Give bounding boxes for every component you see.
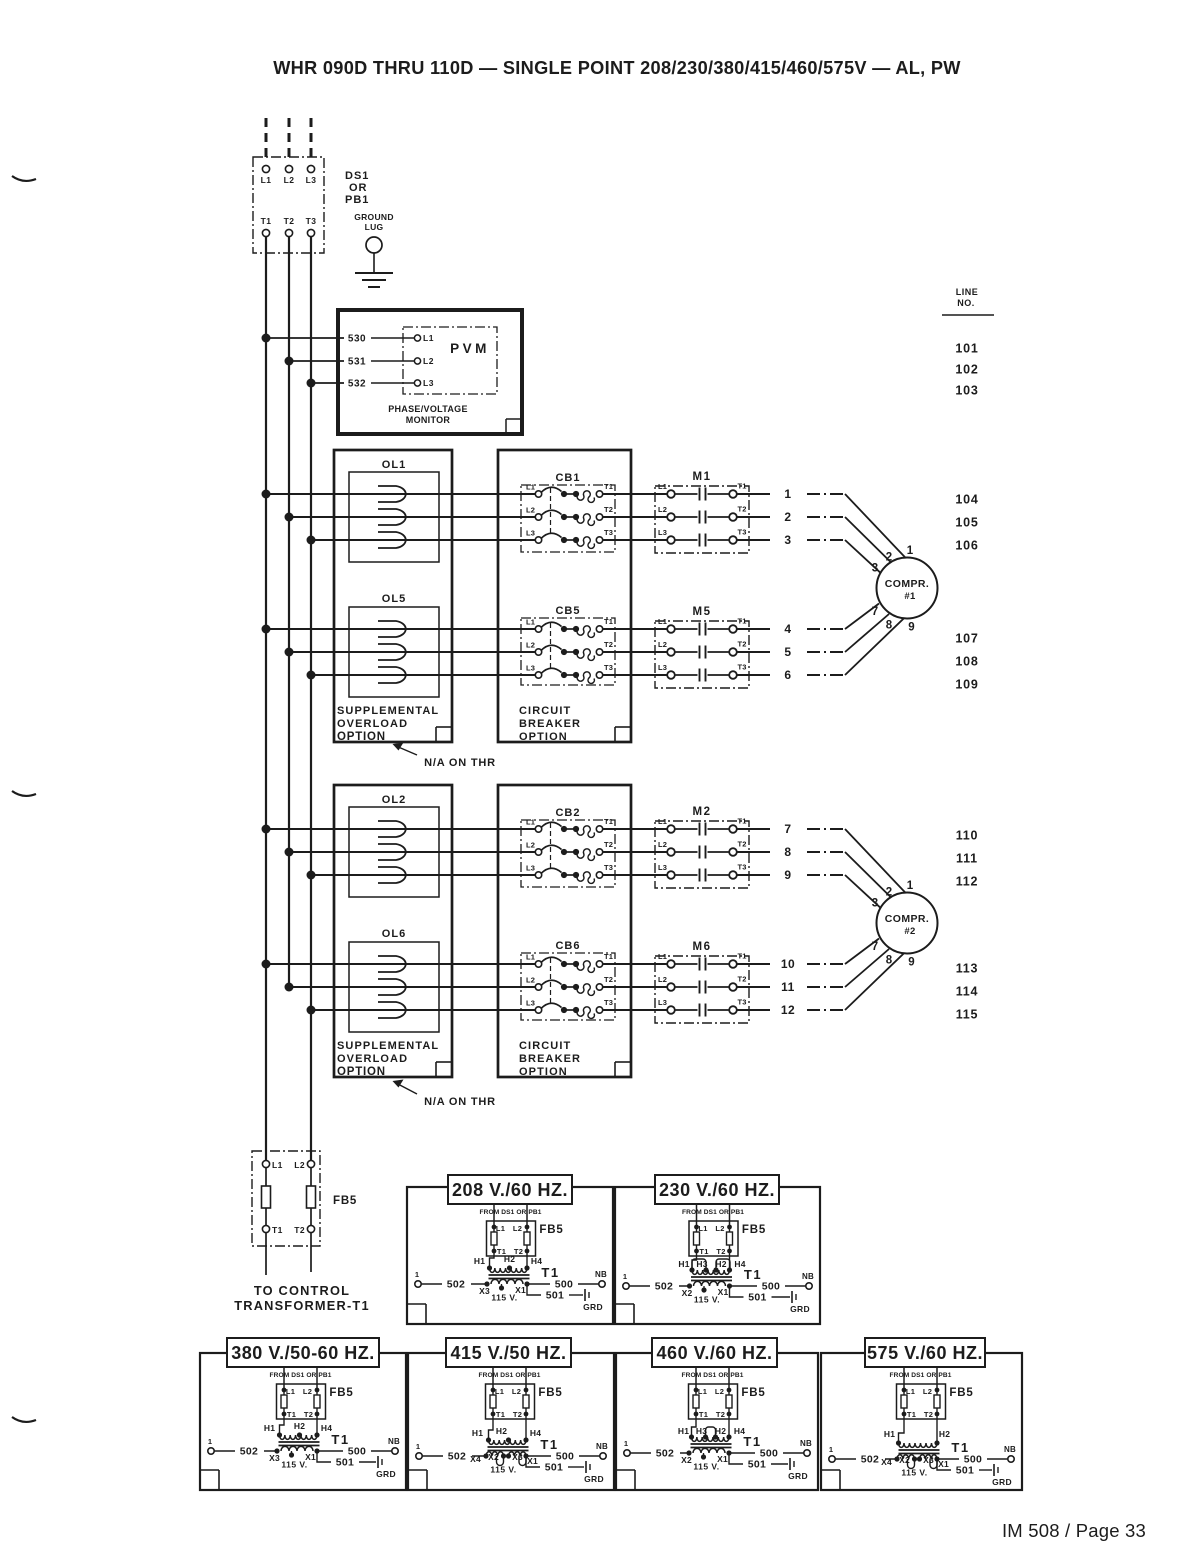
svg-text:OVERLOAD: OVERLOAD [337, 1053, 408, 1065]
transformer T1 secondary winding (230 V./60 HZ.) [694, 1281, 726, 1286]
junction node row 10 [262, 960, 271, 969]
overload heater element (OL5) [378, 667, 406, 683]
FB5 terminals L1 L2 [492, 1225, 497, 1230]
svg-text:H1: H1 [678, 1259, 689, 1269]
option box corner notch [614, 1062, 616, 1077]
svg-text:L1: L1 [526, 818, 535, 827]
svg-text:6: 6 [784, 668, 791, 682]
wire 502 [215, 1450, 236, 1452]
secondary taps X4 X2 X3 X1 [483, 1453, 488, 1458]
svg-text:NB: NB [802, 1272, 814, 1281]
svg-text:X2: X2 [899, 1455, 910, 1465]
transformer T1 primary winding (575 V./60 HZ.) [899, 1443, 938, 1447]
svg-text:X2: X2 [682, 1288, 693, 1298]
svg-text:CB5: CB5 [555, 605, 580, 617]
transformer core [489, 1274, 530, 1276]
svg-text:H2: H2 [496, 1426, 507, 1436]
svg-text:114: 114 [956, 985, 979, 999]
FB5 terminals L1 L2 [694, 1388, 699, 1393]
svg-text:FROM DS1 OR PB1: FROM DS1 OR PB1 [682, 1209, 744, 1216]
overload relay OL1 outline [349, 472, 439, 562]
primary taps H1 H2 H4 [277, 1432, 282, 1437]
junction node wire 532 [307, 379, 316, 388]
svg-text:T2: T2 [924, 1410, 933, 1419]
wire T1 to primary [489, 1414, 494, 1440]
svg-text:COMPR.: COMPR. [885, 913, 929, 925]
wire from DS1/PB1 right [729, 1204, 731, 1227]
svg-text:L3: L3 [526, 664, 535, 673]
svg-text:T3: T3 [738, 663, 747, 672]
svg-text:501: 501 [545, 1462, 563, 1474]
svg-text:1: 1 [907, 545, 914, 557]
overload heater element (OL2) [378, 867, 406, 883]
junction node row 8 [285, 848, 294, 857]
transformer core [691, 1443, 732, 1445]
svg-text:M1: M1 [693, 471, 712, 483]
wire 501 to ground [729, 1453, 743, 1464]
FB5 terminals L1 L2 [282, 1388, 287, 1393]
svg-text:L3: L3 [658, 998, 667, 1007]
svg-text:L1: L1 [658, 952, 667, 961]
ground connection GRD [585, 1461, 587, 1473]
svg-text:FROM DS1 OR PB1: FROM DS1 OR PB1 [270, 1372, 332, 1379]
terminal 1 [415, 1281, 421, 1287]
wire from DS1/PB1 right [728, 1367, 730, 1390]
contactor M2 outline [655, 821, 749, 888]
breaker CB1 trip linkage [550, 488, 552, 534]
svg-text:1: 1 [784, 487, 791, 501]
svg-text:PVM: PVM [450, 341, 490, 356]
transformer T1 primary winding (208 V./60 HZ.) [490, 1268, 527, 1272]
svg-text:L1: L1 [526, 483, 535, 492]
wire row 2 from contactor [737, 516, 770, 518]
svg-text:GRD: GRD [788, 1471, 808, 1481]
secondary taps X2 X1 [687, 1283, 692, 1288]
svg-text:T3: T3 [738, 528, 747, 537]
corner notch [426, 1470, 428, 1489]
svg-text:X3: X3 [479, 1286, 490, 1296]
svg-text:WHR 090D THRU 110D — SINGLE PO: WHR 090D THRU 110D — SINGLE POINT 208/23… [273, 58, 961, 78]
svg-text:T1: T1 [738, 817, 747, 826]
svg-text:T2: T2 [513, 1410, 522, 1419]
terminal L2 of DS1/PB1 [285, 165, 292, 172]
wire 502 [836, 1458, 857, 1460]
svg-text:L1: L1 [526, 618, 535, 627]
svg-text:380 V./50-60 HZ.: 380 V./50-60 HZ. [231, 1343, 374, 1363]
wire 502 [422, 1283, 443, 1285]
svg-text:1: 1 [623, 1272, 627, 1281]
svg-text:OVERLOAD: OVERLOAD [337, 718, 408, 730]
svg-text:FB5: FB5 [539, 1224, 563, 1236]
primary taps H1 H2 H4 [486, 1437, 491, 1442]
svg-text:CB6: CB6 [555, 940, 580, 952]
svg-text:L3: L3 [423, 378, 434, 388]
junction node row 7 [262, 825, 271, 834]
svg-text:T1: T1 [738, 617, 747, 626]
svg-text:T2: T2 [604, 975, 613, 984]
breaker CB2 trip linkage [550, 823, 552, 869]
wire ground lug to earth [373, 253, 375, 272]
svg-text:H2: H2 [715, 1426, 726, 1436]
svg-text:501: 501 [546, 1290, 564, 1302]
svg-text:GRD: GRD [376, 1469, 396, 1479]
svg-text:105: 105 [955, 516, 978, 530]
svg-text:415 V./50 HZ.: 415 V./50 HZ. [451, 1343, 567, 1363]
svg-text:T1: T1 [272, 1225, 283, 1235]
compressor motor COMPR. #2 [877, 893, 938, 954]
wire row 7 breaker to contactor [603, 828, 667, 830]
fuses [903, 1390, 905, 1414]
wire row 9 breaker to contactor [603, 874, 667, 876]
svg-text:230 V./60 HZ.: 230 V./60 HZ. [659, 1180, 775, 1200]
svg-text:OL6: OL6 [382, 928, 406, 940]
svg-text:L2: L2 [658, 640, 667, 649]
wire 501 to ground [526, 1456, 540, 1467]
svg-text:GRD: GRD [790, 1304, 810, 1314]
svg-text:108: 108 [955, 655, 978, 669]
wire row 5 breaker to contactor [603, 651, 667, 653]
svg-text:T2: T2 [294, 1225, 305, 1235]
transformer T1 primary winding (380 V./50-60 HZ.) [280, 1435, 318, 1439]
svg-text:L2: L2 [513, 1224, 522, 1233]
wire 501 to ground [527, 1284, 541, 1295]
wire T1 to primary [692, 1414, 697, 1437]
svg-text:OL1: OL1 [382, 459, 406, 471]
svg-text:T2: T2 [738, 975, 747, 984]
svg-text:X2: X2 [488, 1452, 499, 1462]
svg-text:GRD: GRD [992, 1477, 1012, 1487]
svg-text:T2: T2 [738, 840, 747, 849]
wire from DS1/PB1 left [283, 1367, 285, 1390]
svg-text:L2: L2 [658, 975, 667, 984]
overload relay OL5 outline [349, 607, 439, 697]
option box corner notch [435, 1062, 437, 1077]
svg-text:115 V.: 115 V. [491, 1293, 517, 1303]
primary taps H1 H2 [896, 1440, 901, 1445]
disconnect switch DS1/PB1 enclosure [253, 157, 324, 253]
svg-text:10: 10 [781, 957, 795, 971]
wire FB5 T1 to control transformer [265, 1233, 267, 1275]
svg-text:L1: L1 [526, 953, 535, 962]
svg-text:2: 2 [886, 552, 892, 564]
wire from DS1/PB1 left [493, 1204, 495, 1227]
svg-text:X3: X3 [923, 1455, 934, 1465]
compressor motor COMPR. #1 [877, 558, 938, 619]
svg-text:115: 115 [956, 1008, 979, 1022]
svg-text:T1: T1 [744, 1267, 762, 1282]
svg-text:575 V./60 HZ.: 575 V./60 HZ. [867, 1343, 983, 1363]
wire row 3 from contactor [737, 539, 770, 541]
overload heater element (OL5) [378, 644, 406, 660]
wire row 7 from contactor [737, 828, 770, 830]
svg-text:107: 107 [955, 632, 978, 646]
transformer T1 secondary winding (460 V./60 HZ.) [693, 1448, 725, 1453]
wire row 5 to breaker [289, 651, 535, 653]
wire row 11 dashed to compressor [807, 986, 845, 988]
svg-text:2: 2 [784, 510, 791, 524]
fuse block FB5 outline [252, 1151, 320, 1246]
svg-text:L3: L3 [526, 864, 535, 873]
terminal NB [600, 1453, 606, 1459]
wire 532 to PVM [311, 382, 344, 384]
svg-text:113: 113 [956, 962, 979, 976]
wire row 4 from contactor [737, 628, 770, 630]
wire diagonal row 6 to terminal 9 [845, 618, 904, 675]
svg-text:H2: H2 [294, 1421, 305, 1431]
svg-text:OL5: OL5 [382, 593, 406, 605]
ground connection GRD [377, 1456, 379, 1468]
svg-text:103: 103 [955, 384, 978, 398]
svg-text:208 V./60 HZ.: 208 V./60 HZ. [452, 1180, 568, 1200]
left margin mark 1 [12, 176, 36, 181]
svg-text:531: 531 [348, 357, 366, 368]
svg-text:106: 106 [955, 539, 978, 553]
svg-text:N/A ON THR: N/A ON THR [424, 757, 496, 769]
svg-text:L1: L1 [272, 1160, 283, 1170]
fuse block FB5 (415 V./50 HZ.) [486, 1384, 535, 1419]
svg-text:L1: L1 [423, 333, 434, 343]
wire from DS1/PB1 left [696, 1204, 698, 1227]
wire 500 [527, 1283, 550, 1285]
svg-text:T2: T2 [716, 1410, 725, 1419]
transformer core [899, 1449, 940, 1451]
junction node row 11 [285, 983, 294, 992]
FB5 terminal L1 [262, 1160, 269, 1167]
wire row 4 dashed to compressor [807, 628, 845, 630]
wire 500 [729, 1452, 755, 1454]
svg-text:L2: L2 [294, 1160, 305, 1170]
svg-text:FB5: FB5 [329, 1387, 353, 1399]
wire diagonal row 4 to terminal 7 [845, 604, 879, 630]
FB5 terminals T1 T2 [492, 1249, 497, 1254]
secondary taps X2 X1 [686, 1450, 691, 1455]
svg-text:DS1: DS1 [345, 170, 369, 182]
wire from DS1/PB1 right [936, 1367, 938, 1390]
wire from DS1/PB1 left [492, 1367, 494, 1390]
supplemental overload option box (OL2/OL6) [334, 785, 452, 1077]
FB5 terminals L1 L2 [902, 1388, 907, 1393]
svg-text:T1: T1 [261, 216, 272, 226]
svg-text:T3: T3 [604, 863, 613, 872]
svg-text:L2: L2 [658, 505, 667, 514]
secondary jumpers [497, 1456, 504, 1466]
svg-text:H1: H1 [678, 1426, 689, 1436]
svg-text:7: 7 [784, 822, 791, 836]
svg-text:T1: T1 [287, 1410, 296, 1419]
wire row 5 dashed to compressor [807, 651, 845, 653]
svg-text:T3: T3 [604, 663, 613, 672]
svg-text:L2: L2 [526, 976, 535, 985]
transformer T1 secondary winding (575 V./60 HZ.) [897, 1455, 914, 1459]
svg-text:4: 4 [784, 622, 791, 636]
svg-text:TRANSFORMER-T1: TRANSFORMER-T1 [234, 1298, 370, 1313]
svg-text:L2: L2 [715, 1224, 724, 1233]
PVM terminal L3 [414, 380, 420, 386]
terminal 1 [208, 1448, 214, 1454]
svg-text:OPTION: OPTION [519, 1066, 568, 1078]
wire row 8 dashed to compressor [807, 851, 845, 853]
svg-text:CIRCUIT: CIRCUIT [519, 705, 571, 717]
svg-text:T3: T3 [738, 863, 747, 872]
svg-text:L2: L2 [423, 356, 434, 366]
svg-text:X1: X1 [938, 1459, 949, 1469]
svg-text:H2: H2 [939, 1429, 950, 1439]
wire row 6 dashed to compressor [807, 674, 845, 676]
svg-text:T2: T2 [604, 640, 613, 649]
title box 460 V./60 HZ. [652, 1338, 777, 1367]
secondary jumpers [908, 1459, 915, 1469]
svg-text:BREAKER: BREAKER [519, 1053, 581, 1065]
junction node row 3 [307, 536, 316, 545]
svg-text:T2: T2 [738, 505, 747, 514]
wire row 9 from contactor [737, 874, 770, 876]
overload heater element (OL6) [378, 1002, 406, 1018]
svg-text:460 V./60 HZ.: 460 V./60 HZ. [657, 1343, 773, 1363]
wire 500 [317, 1450, 343, 1452]
overload heater element (OL2) [378, 821, 406, 837]
fuses [695, 1390, 697, 1414]
svg-text:T1: T1 [907, 1410, 916, 1419]
svg-text:T1: T1 [699, 1410, 708, 1419]
svg-text:5: 5 [784, 645, 791, 659]
svg-text:X3: X3 [512, 1452, 523, 1462]
wire diagonal row 9 to terminal 3 [845, 875, 881, 908]
wire diagonal row 3 to terminal 3 [845, 540, 881, 573]
svg-text:FROM DS1 OR PB1: FROM DS1 OR PB1 [890, 1372, 952, 1379]
ground connection GRD [993, 1464, 995, 1476]
terminal NB [599, 1281, 605, 1287]
svg-text:L2: L2 [715, 1387, 724, 1396]
wire row 11 to breaker [289, 986, 535, 988]
svg-text:NB: NB [596, 1442, 608, 1451]
svg-text:2: 2 [886, 887, 892, 899]
wire row 10 to breaker [266, 963, 535, 965]
svg-text:1: 1 [907, 880, 914, 892]
terminal L1 of DS1/PB1 [262, 165, 269, 172]
svg-text:M6: M6 [693, 941, 712, 953]
wire row 8 to breaker [289, 851, 535, 853]
fuses [696, 1227, 698, 1251]
wire row 6 to breaker [311, 674, 535, 676]
voltage option box 230 V./60 HZ. [615, 1187, 820, 1324]
svg-text:L2: L2 [303, 1387, 312, 1396]
svg-text:115 V.: 115 V. [281, 1460, 307, 1470]
svg-text:T1: T1 [699, 1247, 708, 1256]
incoming line L2 (dashed lead) [288, 118, 291, 163]
junction node row 9 [307, 871, 316, 880]
svg-text:1: 1 [208, 1437, 212, 1446]
wire row 7 dashed to compressor [807, 828, 845, 830]
overload heater element (OL1) [378, 509, 406, 525]
wire 501 to ground [317, 1451, 331, 1462]
PVM terminal L2 [414, 358, 420, 364]
svg-text:FB5: FB5 [949, 1387, 973, 1399]
transformer core [691, 1276, 732, 1278]
wire row 4 breaker to contactor [603, 628, 667, 630]
svg-text:FROM DS1 OR PB1: FROM DS1 OR PB1 [682, 1372, 744, 1379]
corner notch [633, 1304, 635, 1323]
incoming line L3 (dashed lead) [310, 118, 313, 163]
title box 380 V./50-60 HZ. [227, 1338, 379, 1367]
svg-text:X3: X3 [269, 1453, 280, 1463]
svg-text:L2: L2 [923, 1387, 932, 1396]
svg-text:PB1: PB1 [345, 194, 369, 206]
wire diagonal row 2 to terminal 2 [845, 517, 891, 562]
svg-text:T3: T3 [604, 998, 613, 1007]
svg-text:FB5: FB5 [742, 1224, 766, 1236]
svg-text:502: 502 [240, 1446, 258, 1458]
PVM terminal L1 [414, 335, 420, 341]
wire row 11 from contactor [737, 986, 770, 988]
svg-text:1: 1 [829, 1445, 833, 1454]
svg-text:BREAKER: BREAKER [519, 718, 581, 730]
circuit breaker option box (CB1/CB5) [498, 450, 631, 742]
FB5 terminal T2 [307, 1225, 314, 1232]
voltage option box 575 V./60 HZ. [821, 1353, 1022, 1490]
overload heater element (OL6) [378, 979, 406, 995]
svg-text:TO CONTROL: TO CONTROL [254, 1283, 350, 1298]
svg-text:8: 8 [886, 955, 893, 967]
title box 415 V./50 HZ. [446, 1338, 571, 1367]
option box corner notch [435, 727, 437, 742]
wire 531 to PVM [289, 360, 344, 362]
svg-text:NB: NB [595, 1270, 607, 1279]
wire row 3 to breaker [311, 539, 535, 541]
wire row 10 breaker to contactor [603, 963, 667, 965]
svg-text:GRD: GRD [584, 1474, 604, 1484]
wire row 9 dashed to compressor [807, 874, 845, 876]
wire from DS1/PB1 right [316, 1367, 318, 1390]
arrow to option box [396, 746, 417, 755]
wire row 11 breaker to contactor [603, 986, 667, 988]
svg-text:L1: L1 [658, 817, 667, 826]
wire row 10 from contactor [737, 963, 770, 965]
terminal NB [1008, 1456, 1014, 1462]
svg-text:H1: H1 [474, 1256, 485, 1266]
svg-text:9: 9 [784, 868, 791, 882]
voltage option box 380 V./50-60 HZ. [200, 1353, 406, 1490]
transformer T1 primary winding (415 V./50 HZ.) [489, 1440, 526, 1444]
svg-text:502: 502 [448, 1451, 466, 1463]
svg-text:H1: H1 [472, 1428, 483, 1438]
junction node row 1 [262, 490, 271, 499]
wire diagonal row 10 to terminal 7 [845, 939, 879, 965]
terminal 1 [623, 1283, 629, 1289]
wire 500 [730, 1285, 758, 1287]
terminal 1 [829, 1456, 835, 1462]
wire row 2 to breaker [289, 516, 535, 518]
option box corner notch [614, 727, 616, 742]
svg-text:H2: H2 [504, 1254, 515, 1264]
svg-text:502: 502 [861, 1454, 879, 1466]
svg-text:532: 532 [348, 379, 366, 390]
svg-text:M2: M2 [693, 806, 712, 818]
transformer core [279, 1441, 320, 1443]
wire feeder L1 vertical [265, 237, 267, 1160]
FB5 terminal L2 [307, 1160, 314, 1167]
svg-text:L3: L3 [658, 863, 667, 872]
wire diagonal row 1 to terminal 1 [845, 494, 906, 558]
svg-text:L1: L1 [261, 175, 272, 185]
secondary taps X3 X1 [274, 1448, 279, 1453]
wire 502 [630, 1285, 651, 1287]
arrow to option box [396, 1083, 417, 1094]
FB5 terminals T1 T2 [694, 1412, 699, 1417]
earth ground symbol [355, 272, 393, 274]
svg-text:N/A ON THR: N/A ON THR [424, 1096, 496, 1108]
wire row 12 breaker to contactor [603, 1009, 667, 1011]
corner notch [839, 1470, 841, 1489]
